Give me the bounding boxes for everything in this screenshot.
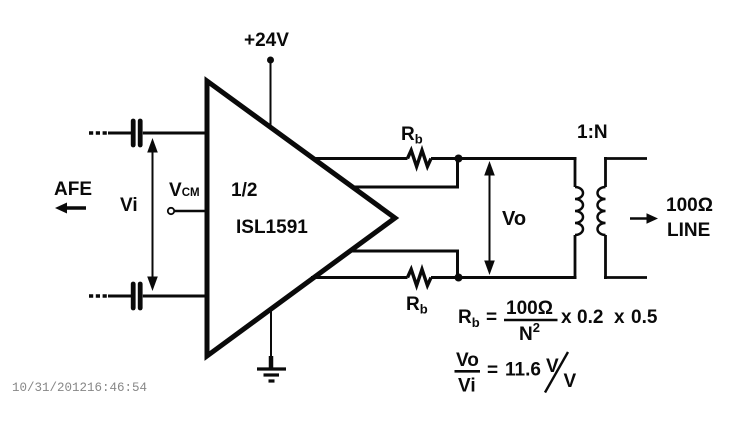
svg-text:+24V: +24V (244, 30, 289, 51)
svg-text:x: x (561, 307, 572, 328)
svg-text:1:N: 1:N (577, 122, 608, 143)
VCM terminal circle (168, 208, 174, 214)
+24V terminal dot (267, 57, 274, 64)
wire upper input right (143, 132, 209, 135)
transformer T1 primary (575, 157, 583, 279)
wire top output from op-amp (311, 157, 408, 160)
svg-text:100Ω: 100Ω (506, 298, 553, 319)
svg-text:100Ω: 100Ω (666, 195, 713, 216)
svg-text:Vi: Vi (120, 195, 138, 216)
wire upper input left (108, 132, 131, 135)
svg-text:1/2: 1/2 (231, 180, 257, 201)
arrow to line (630, 213, 658, 224)
svg-text:0.5: 0.5 (631, 307, 658, 328)
wire secondary top stub (604, 157, 647, 160)
wire top output to transformer (431, 157, 577, 160)
svg-text:V: V (564, 371, 577, 392)
+24V supply wire (270, 60, 272, 129)
wire dashed stub upper input (89, 131, 108, 134)
svg-text:LINE: LINE (667, 220, 710, 241)
wire VCM to op-amp (175, 210, 210, 212)
transformer T1 secondary (598, 157, 606, 279)
label VCM (169, 180, 200, 201)
AFE arrow (55, 203, 86, 214)
wire lower input left (108, 295, 131, 298)
svg-text:AFE: AFE (54, 179, 92, 200)
resistor Rb (top) zigzag (408, 150, 432, 166)
wire top feedback (351, 159, 458, 189)
svg-text:V: V (546, 356, 559, 377)
wire bottom feedback (350, 250, 458, 278)
Vo measurement arrow (484, 161, 495, 275)
wire bottom output from op-amp (311, 276, 408, 279)
svg-text:=: = (487, 360, 498, 381)
svg-text:x: x (614, 307, 625, 328)
op-amp U1 triangle (207, 81, 395, 356)
wire lower input right (143, 295, 209, 298)
svg-text:10/31/201216:46:54: 10/31/201216:46:54 (12, 381, 147, 395)
wire bottom output to transformer (431, 276, 577, 279)
svg-text:Vi: Vi (458, 376, 476, 397)
capacitor C1 (upper input) (133, 121, 140, 145)
svg-text:0.2: 0.2 (577, 307, 603, 328)
svg-text:Vo: Vo (456, 350, 479, 371)
ground (257, 311, 286, 381)
node dot bottom (455, 274, 463, 282)
formula Vo/Vi = 11.6 V/V (455, 350, 577, 397)
formula Rb = 100ohm/N^2 x 0.2 x 0.5 (458, 298, 658, 345)
Vi measurement arrow (147, 138, 158, 291)
svg-text:11.6: 11.6 (505, 360, 541, 381)
node dot top (455, 155, 463, 163)
resistor Rb (bottom) zigzag (408, 269, 432, 285)
svg-text:Vo: Vo (502, 208, 526, 230)
wire dashed stub lower input (89, 294, 108, 297)
svg-text:=: = (486, 307, 497, 328)
capacitor C2 (lower input) (133, 284, 140, 308)
wire secondary bottom stub (604, 276, 647, 279)
svg-text:ISL1591: ISL1591 (236, 217, 308, 238)
label 100ohm LINE (666, 195, 713, 241)
